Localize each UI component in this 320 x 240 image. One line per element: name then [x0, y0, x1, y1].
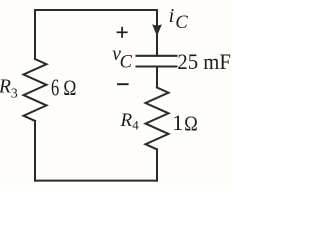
svg-text:Ω: Ω: [184, 111, 198, 135]
svg-text:3: 3: [11, 87, 18, 102]
svg-text:C: C: [175, 13, 188, 33]
wire bottom: [35, 180, 157, 182]
resistor R3: [24, 59, 47, 121]
plus sign: [117, 27, 128, 38]
svg-text:25 mF: 25 mF: [177, 49, 231, 74]
svg-text:4: 4: [132, 118, 139, 133]
capacitor C1: [137, 56, 177, 67]
svg-text:R: R: [0, 76, 11, 97]
wire right top: [156, 10, 158, 56]
svg-text:6: 6: [51, 76, 59, 102]
svg-text:Ω: Ω: [63, 75, 76, 100]
wire top: [35, 9, 157, 11]
wire left top: [34, 10, 36, 59]
svg-text:R: R: [120, 110, 133, 131]
resistor R4: [146, 88, 169, 150]
svg-text:1: 1: [172, 110, 183, 135]
svg-text:i: i: [169, 5, 175, 27]
current arrow head iC: [152, 24, 162, 36]
wire left bottom: [34, 121, 36, 181]
wire capacitor to R4: [156, 67, 158, 88]
minus sign: [117, 83, 129, 85]
wire right bottom: [156, 149, 158, 180]
svg-text:C: C: [120, 52, 133, 72]
